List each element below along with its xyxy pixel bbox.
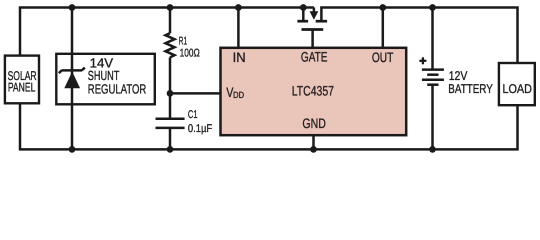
svg-text:0.1µF: 0.1µF bbox=[188, 123, 212, 135]
label LOAD bbox=[502, 82, 532, 96]
battery top lead bbox=[431, 8, 434, 69]
svg-text:LOAD: LOAD bbox=[502, 82, 532, 96]
label pin GATE bbox=[301, 50, 328, 65]
svg-text:GATE: GATE bbox=[301, 50, 328, 65]
wire IN pin bbox=[237, 8, 240, 48]
wire R1 bottom to VDD node to C1 bbox=[169, 57, 172, 118]
wire R1 top lead bbox=[169, 8, 172, 34]
label 14V SHUNT REGULATOR bbox=[88, 56, 147, 97]
node dot top shunt bbox=[69, 4, 76, 11]
battery plus sign bbox=[419, 57, 426, 64]
capacitor C1 bottom plate bbox=[156, 127, 185, 130]
shunt regulator box bbox=[56, 54, 155, 105]
zener diode anode triangle bbox=[64, 72, 80, 89]
node dot bottom GND bbox=[310, 146, 317, 153]
wire GND pin bbox=[312, 135, 315, 149]
transistor Q1 MOSFET right foot bbox=[316, 20, 327, 23]
svg-text:DD: DD bbox=[233, 90, 244, 100]
label R1 value bbox=[179, 36, 200, 60]
label pin GND bbox=[302, 116, 326, 131]
node dot VDD junction bbox=[167, 90, 174, 97]
wire C1 bottom lead bbox=[169, 128, 172, 149]
capacitor C1 top plate bbox=[156, 117, 185, 120]
svg-text:IN: IN bbox=[233, 50, 246, 65]
node dot bottom shunt bbox=[69, 146, 76, 153]
wire bottom bus with solar and load drops bbox=[20, 103, 518, 149]
node dot top battery bbox=[429, 4, 436, 11]
label SOLAR PANEL bbox=[8, 69, 37, 94]
svg-text:LTC4357: LTC4357 bbox=[292, 84, 334, 99]
node dot top OUT bbox=[379, 4, 386, 11]
label pin IN bbox=[233, 50, 246, 65]
label C1 value bbox=[188, 109, 212, 135]
load box bbox=[499, 63, 535, 105]
svg-text:REGULATOR: REGULATOR bbox=[88, 81, 147, 96]
solar panel box bbox=[5, 56, 39, 104]
battery bottom lead bbox=[431, 85, 434, 150]
battery plates bbox=[422, 70, 444, 85]
resistor R1 zigzag bbox=[166, 33, 175, 57]
svg-text:C1: C1 bbox=[188, 109, 198, 121]
node dot top R1 bbox=[167, 4, 174, 11]
svg-text:GND: GND bbox=[302, 116, 326, 131]
node dot top MOSFET drain bbox=[300, 4, 307, 11]
svg-text:BATTERY: BATTERY bbox=[448, 82, 493, 96]
transistor Q1 MOSFET left foot bbox=[297, 20, 308, 23]
wire top bus right segment with load drop bbox=[321, 8, 517, 64]
node dot bottom battery bbox=[429, 146, 436, 153]
wire shunt regulator branch bbox=[71, 8, 74, 150]
IC U1 LTC4357 box bbox=[221, 48, 407, 135]
svg-text:PANEL: PANEL bbox=[8, 80, 36, 94]
label pin VDD bbox=[226, 85, 244, 100]
node dot top IN bbox=[235, 4, 242, 11]
wire OUT pin bbox=[382, 8, 385, 48]
wire top bus left segment with solar panel drop bbox=[20, 8, 314, 56]
label 12V BATTERY bbox=[448, 69, 493, 96]
node dot bottom C1 bbox=[167, 146, 174, 153]
zener diode cathode bar bbox=[59, 68, 85, 74]
transistor Q1 MOSFET drain lead and arrow stem bbox=[303, 8, 314, 21]
transistor Q1 MOSFET gate bar bbox=[302, 28, 324, 31]
svg-text:OUT: OUT bbox=[372, 50, 394, 65]
label IC name LTC4357 bbox=[292, 84, 334, 99]
wire VDD horizontal bbox=[170, 92, 221, 95]
wire gate lead to GATE pin bbox=[311, 30, 314, 48]
label pin OUT bbox=[372, 50, 394, 65]
svg-text:R1: R1 bbox=[179, 36, 188, 48]
transistor Q1 MOSFET arrow head bbox=[310, 11, 319, 20]
svg-text:100Ω: 100Ω bbox=[180, 47, 200, 59]
